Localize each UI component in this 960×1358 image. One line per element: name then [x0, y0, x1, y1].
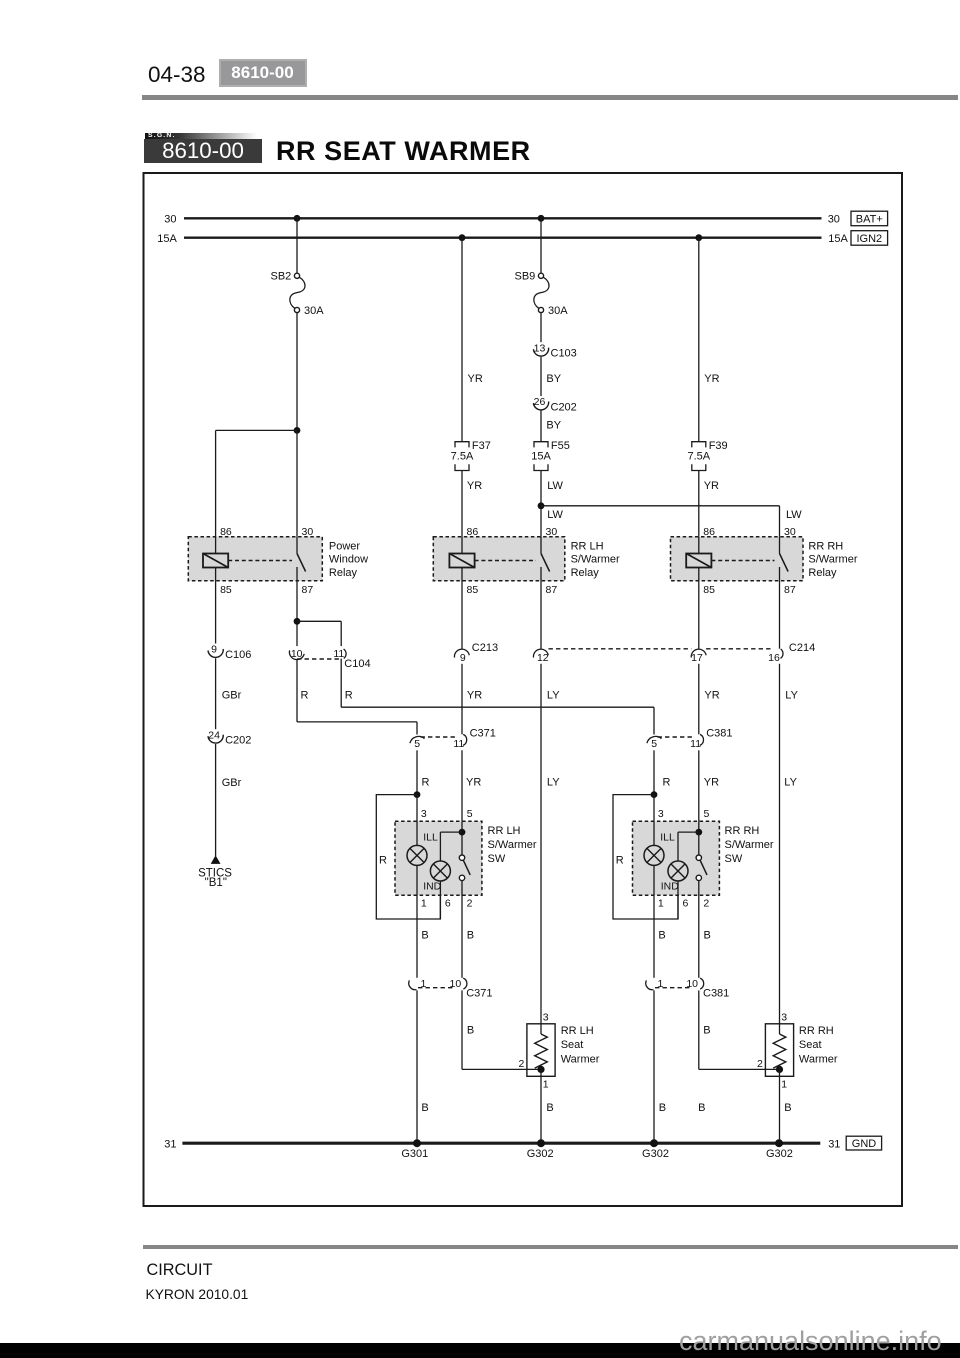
svg-text:2: 2 [757, 1058, 763, 1070]
svg-text:15A: 15A [531, 451, 551, 463]
svg-text:SW: SW [725, 853, 743, 865]
svg-text:S/Warmer: S/Warmer [725, 839, 774, 851]
svg-text:7.5A: 7.5A [687, 451, 710, 463]
svg-text:YR: YR [704, 480, 719, 492]
svg-text:C381: C381 [706, 728, 732, 740]
svg-text:Seat: Seat [799, 1039, 822, 1051]
svg-text:15A: 15A [828, 233, 848, 245]
svg-text:RR LH: RR LH [561, 1025, 594, 1037]
svg-text:G302: G302 [527, 1148, 554, 1160]
svg-text:R: R [301, 689, 309, 701]
svg-text:F37: F37 [472, 440, 491, 452]
svg-text:RR RH: RR RH [725, 825, 760, 837]
svg-text:C106: C106 [225, 649, 251, 661]
svg-text:6: 6 [683, 898, 689, 910]
svg-text:85: 85 [703, 584, 715, 596]
svg-text:R: R [663, 777, 671, 789]
svg-text:LY: LY [785, 689, 798, 701]
svg-text:S/Warmer: S/Warmer [571, 554, 620, 566]
svg-text:86: 86 [467, 526, 479, 538]
svg-text:13: 13 [534, 342, 546, 354]
svg-text:LY: LY [547, 689, 560, 701]
svg-text:C202: C202 [551, 402, 577, 414]
svg-text:1: 1 [658, 898, 664, 910]
svg-text:ILL: ILL [660, 833, 675, 844]
svg-text:30: 30 [784, 526, 796, 538]
svg-text:SB9: SB9 [515, 271, 536, 283]
svg-text:R: R [616, 855, 624, 867]
svg-text:C371: C371 [470, 728, 496, 740]
svg-text:SW: SW [488, 853, 506, 865]
svg-text:R: R [422, 777, 430, 789]
svg-text:Relay: Relay [808, 567, 837, 579]
svg-text:C381: C381 [703, 987, 729, 999]
svg-text:"B1": "B1" [205, 877, 227, 889]
svg-text:2: 2 [703, 898, 709, 910]
svg-text:YR: YR [704, 373, 719, 385]
svg-text:6: 6 [445, 898, 451, 910]
svg-text:87: 87 [546, 584, 558, 596]
svg-text:3: 3 [781, 1012, 787, 1024]
svg-text:86: 86 [220, 526, 232, 538]
svg-text:BY: BY [546, 373, 561, 385]
svg-text:LW: LW [547, 509, 563, 521]
svg-text:26: 26 [534, 396, 546, 408]
svg-text:GND: GND [852, 1138, 877, 1150]
svg-text:F55: F55 [551, 440, 570, 452]
svg-text:Seat: Seat [561, 1039, 584, 1051]
svg-text:3: 3 [543, 1012, 549, 1024]
svg-text:S/Warmer: S/Warmer [808, 554, 857, 566]
svg-text:30: 30 [546, 526, 558, 538]
svg-text:1: 1 [781, 1079, 787, 1091]
svg-text:11: 11 [453, 738, 464, 750]
svg-text:87: 87 [784, 584, 796, 596]
svg-text:RR RH: RR RH [799, 1025, 834, 1037]
svg-text:BAT+: BAT+ [856, 214, 883, 226]
svg-text:GBr: GBr [222, 689, 242, 701]
svg-text:YR: YR [468, 373, 483, 385]
svg-text:16: 16 [768, 652, 780, 664]
svg-text:7.5A: 7.5A [451, 451, 474, 463]
svg-text:IND: IND [423, 881, 441, 892]
svg-text:B: B [704, 930, 711, 942]
svg-text:B: B [467, 930, 474, 942]
svg-text:BY: BY [546, 420, 561, 432]
svg-text:B: B [658, 930, 665, 942]
svg-text:10: 10 [291, 648, 303, 660]
svg-text:Window: Window [329, 554, 368, 566]
svg-text:YR: YR [467, 689, 482, 701]
svg-text:B: B [703, 1025, 710, 1037]
svg-text:LY: LY [547, 777, 560, 789]
svg-text:1: 1 [543, 1079, 549, 1091]
svg-text:G302: G302 [642, 1148, 669, 1160]
svg-text:C214: C214 [789, 642, 815, 654]
svg-text:C103: C103 [551, 348, 577, 360]
svg-text:5: 5 [467, 808, 473, 820]
svg-text:B: B [659, 1102, 666, 1114]
svg-text:F39: F39 [709, 440, 728, 452]
svg-text:30: 30 [164, 214, 176, 226]
svg-text:85: 85 [220, 584, 232, 596]
svg-text:LY: LY [784, 777, 797, 789]
svg-text:C104: C104 [344, 658, 370, 670]
svg-text:3: 3 [658, 808, 664, 820]
svg-text:31: 31 [828, 1138, 840, 1150]
svg-text:YR: YR [467, 480, 482, 492]
svg-text:Warmer: Warmer [799, 1053, 838, 1065]
svg-text:RR LH: RR LH [488, 825, 521, 837]
svg-text:9: 9 [460, 652, 466, 664]
svg-text:YR: YR [704, 689, 719, 701]
svg-text:2: 2 [467, 898, 473, 910]
svg-text:30A: 30A [548, 305, 568, 317]
svg-text:R: R [345, 689, 353, 701]
svg-text:17: 17 [691, 652, 703, 664]
svg-text:G301: G301 [401, 1148, 428, 1160]
svg-text:Warmer: Warmer [561, 1053, 600, 1065]
svg-text:ILL: ILL [423, 833, 438, 844]
svg-text:30: 30 [828, 214, 840, 226]
svg-text:15A: 15A [157, 233, 177, 245]
svg-text:87: 87 [302, 584, 314, 596]
svg-text:RR LH: RR LH [571, 540, 604, 552]
svg-text:30: 30 [302, 526, 314, 538]
svg-text:30A: 30A [304, 305, 324, 317]
svg-text:G302: G302 [766, 1148, 793, 1160]
svg-text:B: B [467, 1025, 474, 1037]
svg-text:85: 85 [467, 584, 479, 596]
svg-text:YR: YR [704, 777, 719, 789]
svg-text:IND: IND [661, 881, 679, 892]
svg-text:IGN2: IGN2 [856, 233, 882, 245]
svg-text:24: 24 [208, 729, 220, 741]
svg-text:C202: C202 [225, 735, 251, 747]
svg-text:B: B [546, 1102, 553, 1114]
svg-text:1: 1 [421, 898, 427, 910]
svg-text:5: 5 [651, 738, 657, 750]
svg-text:9: 9 [211, 644, 217, 656]
svg-text:C213: C213 [472, 642, 498, 654]
svg-text:LW: LW [547, 480, 563, 492]
svg-text:R: R [379, 855, 387, 867]
svg-text:5: 5 [414, 738, 420, 750]
svg-text:YR: YR [466, 777, 481, 789]
svg-text:11: 11 [690, 738, 701, 750]
svg-text:S/Warmer: S/Warmer [488, 839, 537, 851]
svg-text:Relay: Relay [571, 567, 600, 579]
svg-text:31: 31 [164, 1138, 176, 1150]
svg-text:2: 2 [518, 1058, 524, 1070]
svg-text:12: 12 [537, 652, 549, 664]
svg-text:RR RH: RR RH [808, 540, 843, 552]
svg-text:B: B [421, 1102, 428, 1114]
svg-text:B: B [698, 1102, 705, 1114]
svg-text:86: 86 [703, 526, 715, 538]
svg-text:3: 3 [421, 808, 427, 820]
svg-text:11: 11 [333, 648, 344, 660]
svg-text:B: B [421, 930, 428, 942]
svg-text:Power: Power [329, 540, 361, 552]
svg-text:SB2: SB2 [271, 271, 292, 283]
svg-text:5: 5 [704, 808, 710, 820]
svg-text:LW: LW [786, 509, 802, 521]
svg-text:C371: C371 [466, 987, 492, 999]
svg-text:B: B [784, 1102, 791, 1114]
svg-text:Relay: Relay [329, 567, 358, 579]
svg-text:GBr: GBr [222, 777, 242, 789]
